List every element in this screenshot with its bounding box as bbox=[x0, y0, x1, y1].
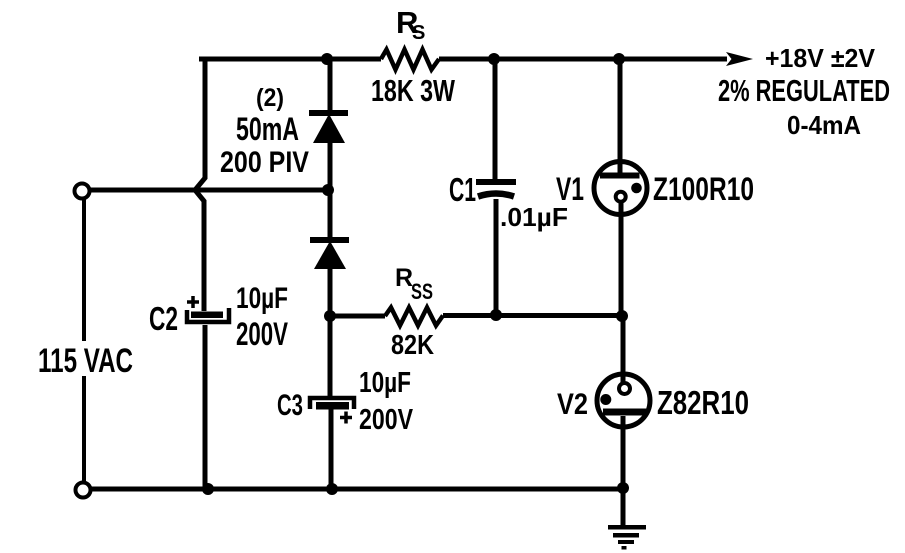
svg-text:C3: C3 bbox=[277, 389, 303, 422]
svg-text:C1: C1 bbox=[449, 171, 476, 208]
svg-text:C2: C2 bbox=[149, 300, 178, 337]
svg-text:V1: V1 bbox=[556, 171, 584, 207]
svg-text:0-4mA: 0-4mA bbox=[787, 110, 861, 140]
svg-text:200V: 200V bbox=[236, 316, 288, 352]
svg-text:2% REGULATED: 2% REGULATED bbox=[718, 73, 890, 108]
svg-text:SS: SS bbox=[411, 279, 433, 304]
svg-text:(2): (2) bbox=[256, 84, 284, 112]
svg-text:200V: 200V bbox=[359, 404, 414, 436]
svg-text:115 VAC: 115 VAC bbox=[38, 342, 133, 380]
svg-text:S: S bbox=[412, 22, 425, 44]
svg-text:200 PIV: 200 PIV bbox=[220, 146, 309, 179]
svg-text:Z100R10: Z100R10 bbox=[653, 171, 754, 207]
svg-text:10µF: 10µF bbox=[359, 367, 411, 399]
svg-text:82K: 82K bbox=[391, 329, 434, 360]
svg-text:Z82R10: Z82R10 bbox=[657, 384, 749, 421]
svg-text:50mA: 50mA bbox=[236, 111, 299, 147]
svg-text:+18V ±2V: +18V ±2V bbox=[765, 43, 876, 73]
svg-text:18K 3W: 18K 3W bbox=[371, 73, 456, 108]
svg-text:10µF: 10µF bbox=[236, 282, 288, 315]
svg-text:V2: V2 bbox=[557, 388, 588, 421]
